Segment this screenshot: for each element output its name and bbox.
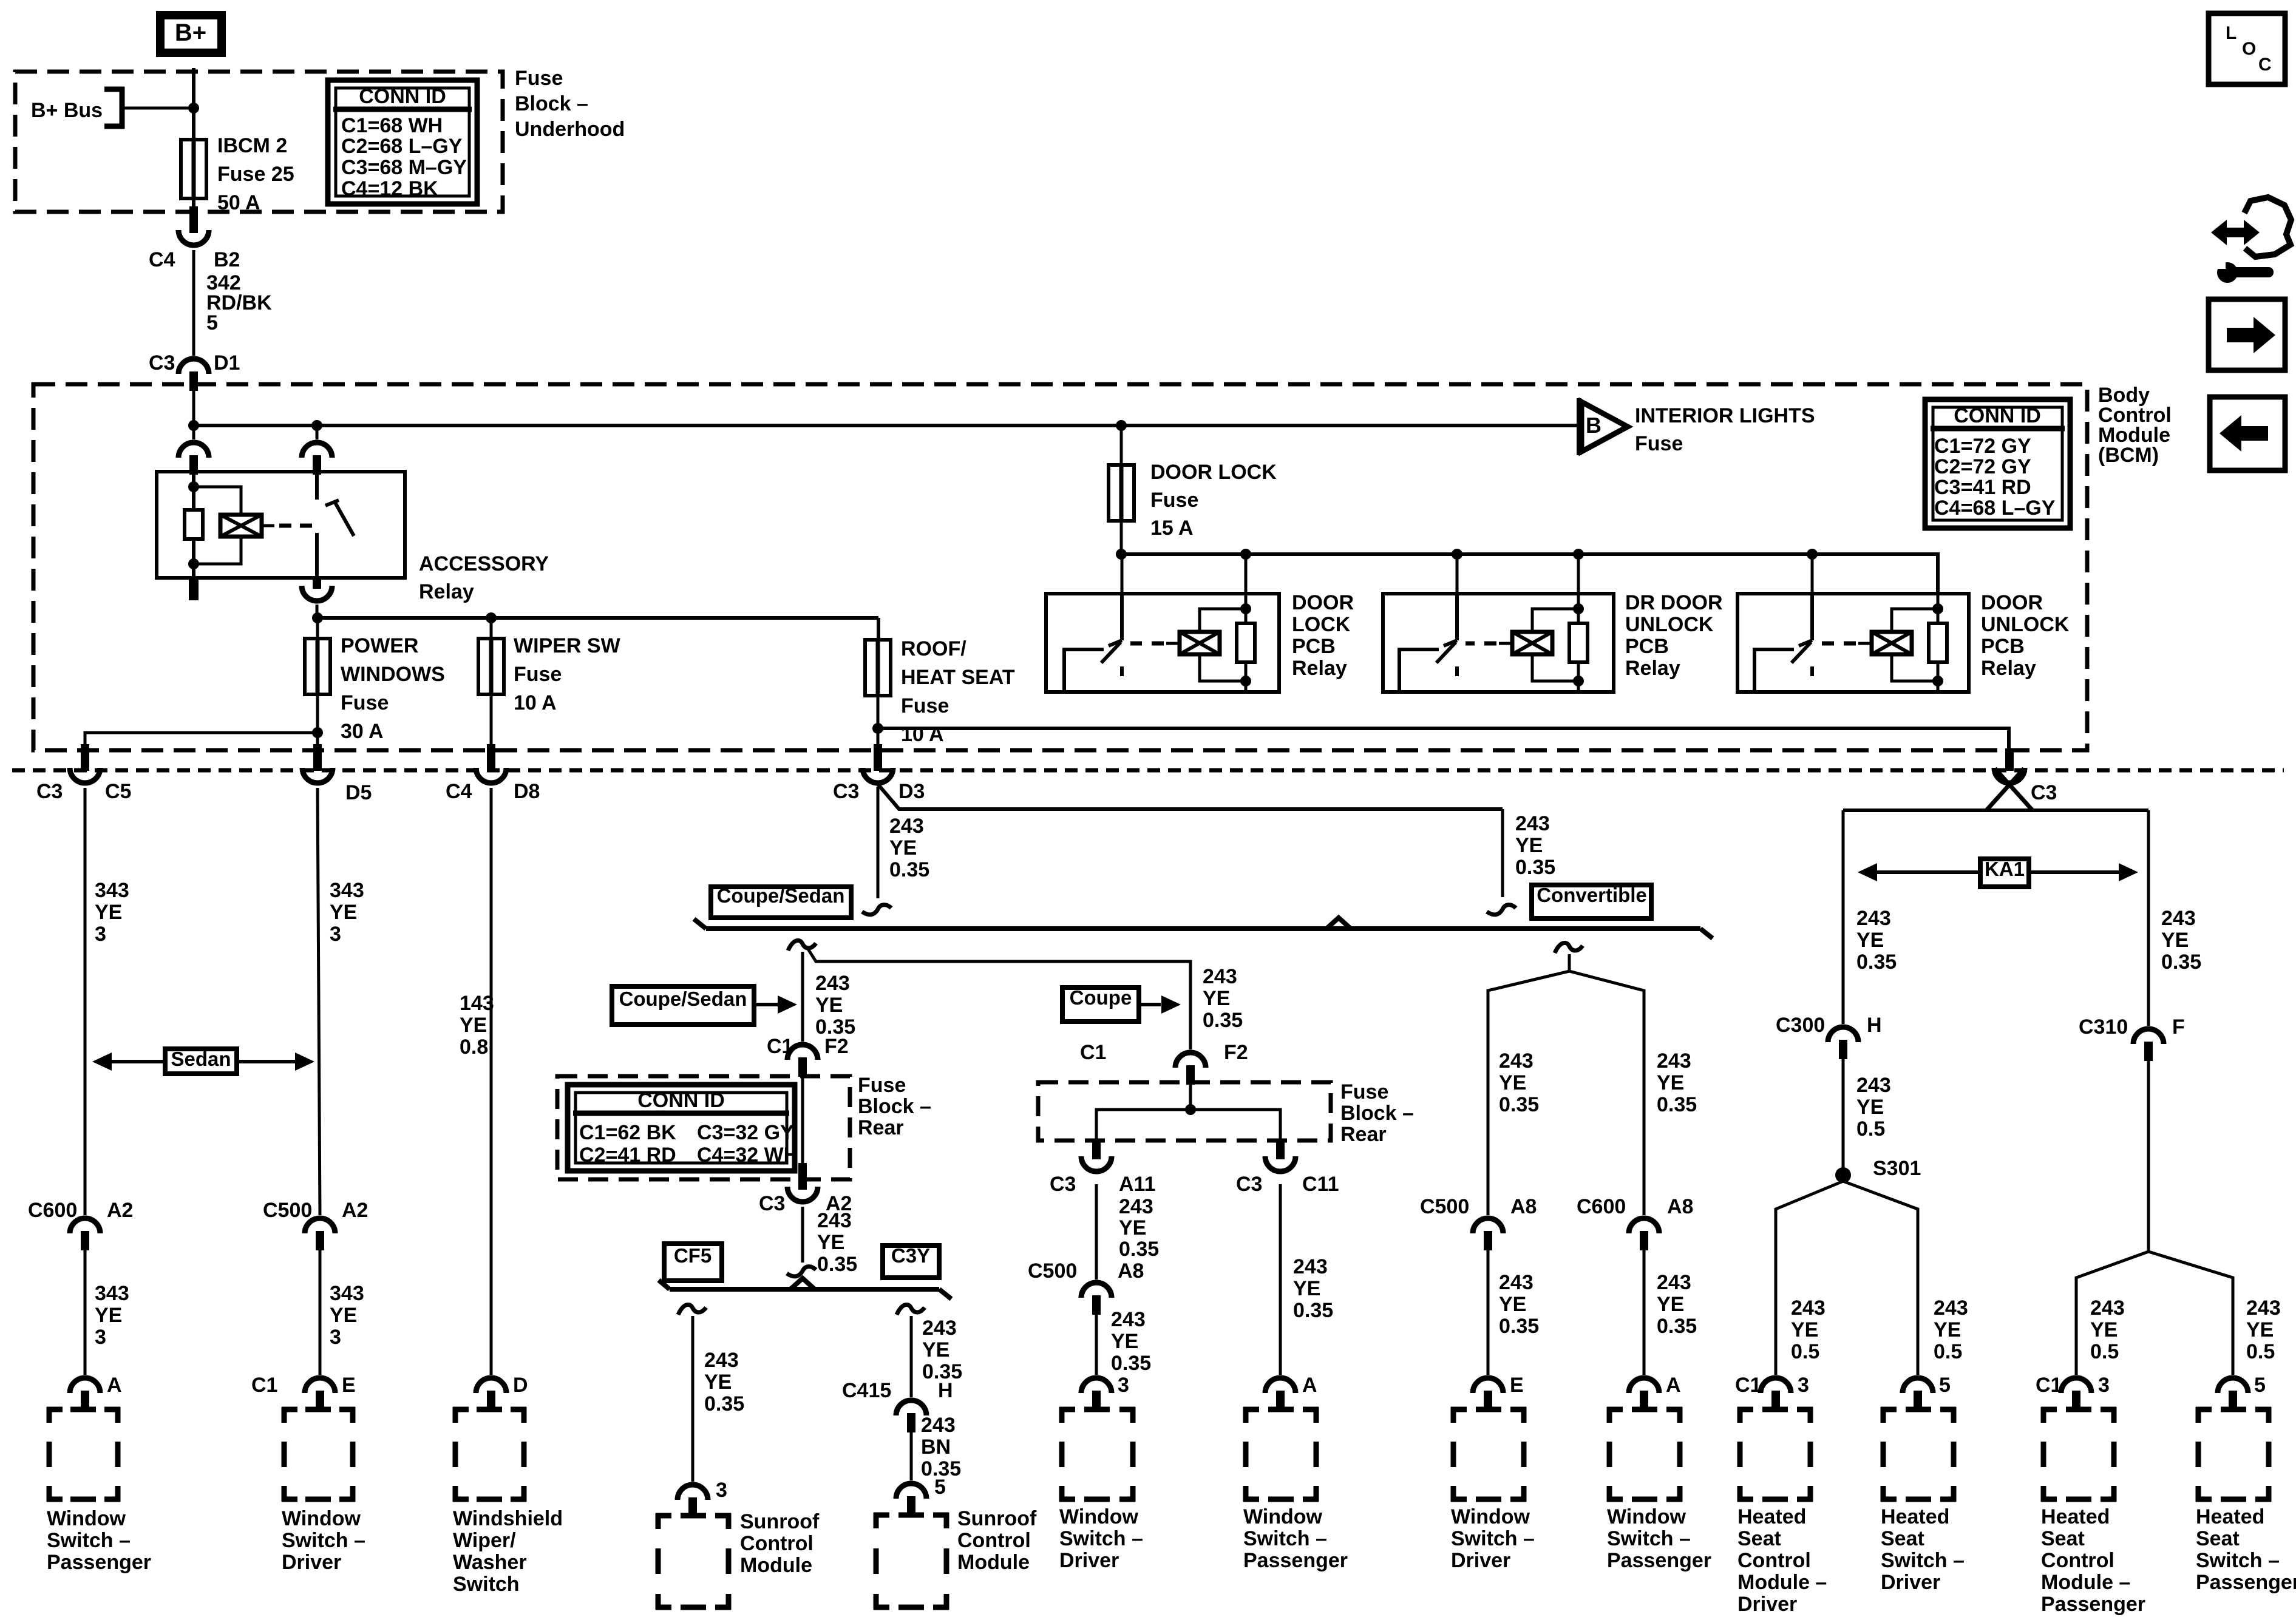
svg-text:0.5: 0.5: [2246, 1340, 2275, 1363]
svg-text:Passenger: Passenger: [2041, 1593, 2145, 1616]
wire C3Y branch 243 YE 0.35: [910, 1316, 913, 1397]
svg-text:143: 143: [460, 992, 494, 1015]
svg-text:3: 3: [95, 1326, 106, 1349]
svg-text:DR DOOR: DR DOOR: [1625, 591, 1723, 614]
svg-text:Seat: Seat: [1881, 1527, 1924, 1550]
CF5 option box: [664, 1244, 722, 1281]
svg-text:Block –: Block –: [515, 92, 588, 115]
svg-text:YE: YE: [1499, 1071, 1526, 1094]
relay DOOR UNLOCK PCB box: [1737, 594, 1969, 692]
connector C500/A8 convertible: [1473, 1218, 1503, 1233]
connector C1/F2 right: [1175, 1053, 1206, 1068]
relay DOOR LOCK PCB coil feed wire: [1245, 554, 1248, 610]
svg-text:C1=62 BK: C1=62 BK: [579, 1121, 676, 1144]
Heated Seat Control Module - Driver box: [1737, 1407, 1753, 1412]
svg-text:A: A: [1302, 1374, 1317, 1397]
svg-text:C3=68 M–GY: C3=68 M–GY: [341, 156, 467, 179]
convertible Y split: [1488, 954, 1569, 1215]
svg-text:C3: C3: [1236, 1173, 1262, 1196]
svg-text:Module –: Module –: [1737, 1571, 1827, 1594]
svg-text:0.35: 0.35: [1657, 1315, 1697, 1338]
hook top of C3Y branch: [897, 1304, 925, 1315]
svg-text:243: 243: [1791, 1297, 1826, 1320]
branch C3/D3 to convertible drop: [878, 784, 1503, 809]
svg-text:A8: A8: [1667, 1195, 1693, 1218]
svg-text:0.35: 0.35: [1111, 1352, 1151, 1375]
connector C3/A2: [798, 1163, 807, 1190]
svg-text:C300: C300: [1776, 1014, 1825, 1037]
junction dot bus left: [188, 420, 199, 431]
svg-text:C3: C3: [149, 351, 175, 375]
service tool hand icon: [2211, 220, 2260, 245]
svg-text:0.35: 0.35: [889, 858, 929, 881]
relay DR DOOR UNLOCK PCB coil feed wire: [1577, 554, 1580, 610]
svg-text:0.35: 0.35: [1499, 1315, 1539, 1338]
connector C4/D8: [487, 744, 495, 771]
svg-text:243: 243: [921, 1414, 956, 1437]
svg-text:Fuse: Fuse: [858, 1074, 906, 1097]
svg-text:243: 243: [1856, 1074, 1891, 1097]
svg-text:IBCM 2: IBCM 2: [217, 134, 287, 157]
svg-text:YE: YE: [2246, 1318, 2274, 1341]
Sunroof Control Module box 2: [874, 1513, 889, 1518]
svg-text:Window: Window: [47, 1507, 126, 1530]
junction dot B+ bus: [188, 103, 199, 114]
connector 5 heated seat switch driver: [1903, 1378, 1933, 1393]
main B+ bus inside BCM: [194, 424, 1579, 427]
svg-text:C4=32 WH: C4=32 WH: [697, 1144, 798, 1167]
svg-text:H: H: [938, 1379, 953, 1402]
accessory relay coil ground stub: [189, 578, 199, 600]
svg-text:243: 243: [2090, 1297, 2125, 1320]
back arrow box: [2210, 397, 2285, 470]
svg-text:YE: YE: [2161, 929, 2189, 952]
svg-text:0.35: 0.35: [2161, 951, 2201, 974]
svg-text:C1: C1: [251, 1374, 277, 1397]
svg-text:YE: YE: [1515, 834, 1543, 857]
BCM CONN ID table: [1925, 399, 2070, 528]
svg-text:C3=32 GY: C3=32 GY: [697, 1121, 794, 1144]
svg-text:C2=68 L–GY: C2=68 L–GY: [341, 135, 463, 158]
svg-text:243: 243: [1499, 1049, 1533, 1073]
svg-text:0.5: 0.5: [2090, 1340, 2119, 1363]
wire to A window switch passenger: [1643, 1250, 1646, 1375]
svg-text:343: 343: [330, 879, 364, 902]
svg-text:H: H: [1867, 1014, 1882, 1037]
svg-text:YE: YE: [1791, 1318, 1818, 1341]
svg-text:C5: C5: [105, 780, 131, 803]
svg-text:DOOR: DOOR: [1292, 591, 1354, 614]
svg-text:CF5: CF5: [674, 1244, 712, 1267]
connector accessory relay switch feed: [316, 425, 319, 439]
svg-text:Windshield: Windshield: [453, 1507, 563, 1530]
Heated Seat Switch - Passenger box: [2196, 1407, 2212, 1412]
svg-text:5: 5: [934, 1476, 946, 1499]
connector C4/B2: [189, 206, 198, 233]
svg-text:Sunroof: Sunroof: [740, 1510, 820, 1533]
accessory relay resistor: [185, 510, 203, 539]
svg-text:Convertible: Convertible: [1537, 884, 1647, 906]
svg-text:C2=72 GY: C2=72 GY: [1934, 455, 2031, 478]
svg-text:Fuse: Fuse: [1150, 489, 1198, 512]
svg-text:YE: YE: [2090, 1318, 2118, 1341]
svg-text:C4=12 BK: C4=12 BK: [341, 177, 438, 200]
svg-text:Sedan: Sedan: [171, 1048, 231, 1070]
svg-text:343: 343: [330, 1282, 364, 1305]
svg-text:C600: C600: [28, 1199, 77, 1222]
svg-text:0.35: 0.35: [1119, 1238, 1159, 1261]
Windshield Wiper/Washer Switch box: [453, 1407, 469, 1412]
svg-text:Fuse: Fuse: [515, 67, 563, 90]
svg-text:Seat: Seat: [1737, 1527, 1781, 1550]
relay DR DOOR UNLOCK PCB box: [1383, 594, 1614, 692]
Coupe/Sedan option box top: [711, 887, 851, 918]
Fuse Block - Rear right dashed box: [1038, 1082, 1331, 1141]
svg-text:Coupe/Sedan: Coupe/Sedan: [717, 884, 845, 907]
svg-text:PCB: PCB: [1981, 635, 2025, 658]
connector C1/3 heated seat control module passenger: [2061, 1378, 2091, 1393]
connector 3 sunroof control module: [678, 1485, 708, 1500]
svg-text:C3: C3: [833, 780, 859, 803]
svg-text:Window: Window: [1243, 1505, 1323, 1528]
svg-text:3: 3: [1798, 1374, 1809, 1397]
svg-text:50 A: 50 A: [217, 191, 260, 214]
hook top of coupe/sedan branch: [788, 940, 816, 951]
relay feed bus: [1120, 521, 1123, 555]
Coupe option box with arrow: [1062, 988, 1139, 1022]
wire CF5 branch 243 YE 0.35: [691, 1316, 695, 1482]
KA1 connector span arrows: [1877, 870, 1980, 874]
svg-text:UNLOCK: UNLOCK: [1625, 613, 1714, 636]
svg-text:Seat: Seat: [2041, 1527, 2085, 1550]
svg-text:Module –: Module –: [2041, 1571, 2130, 1594]
Heated Seat Switch - Driver box: [1881, 1407, 1897, 1412]
branch to power windows connectors: [316, 694, 319, 745]
accessory relay switch: [315, 475, 319, 500]
split bus to heated seat branches: [1843, 808, 2148, 812]
accessory relay coil winding: [220, 515, 262, 537]
svg-text:C1: C1: [2036, 1374, 2062, 1397]
relay DR DOOR UNLOCK PCB coil-switch dashed link: [1499, 642, 1512, 645]
C3Y option box: [883, 1246, 939, 1278]
svg-text:5: 5: [1939, 1374, 1951, 1397]
svg-text:Window: Window: [1607, 1505, 1686, 1528]
Coupe/Sedan option box with arrow: [612, 986, 754, 1025]
wire A11 243 YE 0.35: [1095, 1184, 1098, 1280]
svg-text:YE: YE: [330, 1304, 357, 1327]
wire 243 YE 0.5 to S301: [1842, 1059, 1845, 1176]
connector A window switch passenger mid: [1265, 1378, 1296, 1393]
svg-text:243: 243: [1657, 1049, 1691, 1073]
svg-text:3: 3: [330, 1326, 341, 1349]
svg-text:Module: Module: [957, 1551, 1030, 1574]
wire bracket to junction: [123, 107, 194, 110]
Fuse Block - Underhood dashed box: [15, 72, 503, 212]
svg-text:PCB: PCB: [1625, 635, 1669, 658]
svg-text:CONN ID: CONN ID: [1954, 404, 2041, 427]
Window Switch - Driver box convertible: [1451, 1407, 1467, 1412]
accessory relay coil branch: [192, 475, 195, 511]
svg-text:0.8: 0.8: [460, 1036, 488, 1059]
svg-text:243: 243: [922, 1317, 957, 1340]
svg-text:E: E: [342, 1374, 356, 1397]
connector A window switch passenger: [70, 1378, 100, 1393]
svg-text:Block –: Block –: [858, 1095, 931, 1118]
wire fuse to connector C4/B2: [192, 198, 195, 208]
svg-text:30 A: 30 A: [341, 720, 384, 743]
svg-text:Control: Control: [740, 1532, 813, 1555]
connector C600/A8 convertible: [1629, 1218, 1659, 1233]
X split below BCM C3 connector: [1986, 768, 2024, 810]
connector C3 BCM right: [2005, 748, 2014, 771]
svg-text:YE: YE: [922, 1338, 949, 1361]
svg-text:C2=41 RD: C2=41 RD: [579, 1144, 676, 1167]
S301 Y split: [1776, 1181, 1843, 1375]
svg-text:D8: D8: [514, 780, 540, 803]
relay DOOR UNLOCK PCB switch: [1810, 595, 1814, 640]
wire B+ down to bus junction: [192, 68, 195, 141]
svg-text:C: C: [2258, 55, 2272, 75]
C310 Y split: [2076, 1252, 2148, 1375]
svg-text:Sunroof: Sunroof: [957, 1507, 1037, 1530]
svg-text:0.35: 0.35: [704, 1392, 744, 1415]
wire through left fuse block rear: [801, 1077, 804, 1163]
svg-text:YE: YE: [1111, 1330, 1138, 1353]
svg-text:Control: Control: [957, 1529, 1031, 1552]
svg-text:YE: YE: [1293, 1277, 1320, 1300]
svg-text:Window: Window: [282, 1507, 361, 1530]
connector D5: [313, 744, 322, 771]
branch wire to coupe connector: [807, 948, 1190, 1049]
svg-text:Control: Control: [2041, 1549, 2114, 1572]
svg-text:243: 243: [1111, 1308, 1146, 1331]
svg-text:DOOR: DOOR: [1981, 591, 2043, 614]
svg-text:Passenger: Passenger: [1243, 1549, 1348, 1572]
svg-text:Heated: Heated: [2196, 1505, 2264, 1528]
svg-text:F2: F2: [1224, 1041, 1248, 1064]
wire 343 YE 3 to window switch passenger: [84, 1250, 87, 1375]
svg-text:243: 243: [1203, 965, 1237, 988]
svg-text:Fuse: Fuse: [514, 663, 562, 686]
svg-text:YE: YE: [1499, 1293, 1526, 1316]
svg-text:O: O: [2242, 39, 2256, 59]
option brace line lower: [670, 1287, 939, 1292]
svg-text:Switch –: Switch –: [1607, 1527, 1691, 1550]
svg-text:C4=68 L–GY: C4=68 L–GY: [1934, 497, 2056, 520]
svg-text:0.35: 0.35: [1499, 1093, 1539, 1116]
svg-text:Heated: Heated: [2041, 1505, 2110, 1528]
svg-text:YE: YE: [1119, 1216, 1146, 1239]
svg-text:Seat: Seat: [2196, 1527, 2240, 1550]
Convertible option box: [1532, 885, 1651, 918]
svg-text:PCB: PCB: [1292, 635, 1336, 658]
svg-text:Heated: Heated: [1881, 1505, 1949, 1528]
wire C310 down to Y split: [2147, 1061, 2150, 1252]
relay DR DOOR UNLOCK PCB coil winding: [1532, 609, 1578, 633]
wire to E window switch driver: [1487, 1250, 1490, 1375]
svg-text:243: 243: [889, 815, 924, 838]
relay DR DOOR UNLOCK PCB switch feed wire: [1456, 554, 1459, 595]
svg-text:C500: C500: [1028, 1259, 1077, 1283]
junction dot accessory switch feed: [311, 420, 322, 431]
svg-text:B2: B2: [214, 248, 240, 271]
hook top of convertible branch: [1555, 943, 1583, 953]
fuse WIPER SW 10A: [490, 618, 493, 640]
svg-text:Control: Control: [1737, 1549, 1811, 1572]
svg-text:WIPER SW: WIPER SW: [514, 634, 621, 657]
svg-text:243: 243: [704, 1349, 739, 1372]
svg-text:C4: C4: [446, 780, 472, 803]
svg-text:Fuse: Fuse: [1340, 1080, 1388, 1103]
Window Switch - Passenger box mid: [1243, 1407, 1259, 1412]
svg-text:DOOR LOCK: DOOR LOCK: [1150, 461, 1277, 484]
svg-text:C310: C310: [2079, 1015, 2128, 1039]
svg-text:0.35: 0.35: [1293, 1299, 1333, 1322]
wire 343 YE 3 to window switch driver: [319, 1250, 322, 1375]
connector C3/A11: [1092, 1141, 1101, 1159]
connector C310/F: [2133, 1029, 2164, 1044]
svg-text:YE: YE: [817, 1231, 844, 1254]
relay DOOR UNLOCK PCB coil winding: [1892, 609, 1938, 633]
ACCESSORY relay box: [157, 472, 405, 578]
svg-text:Rear: Rear: [858, 1116, 904, 1139]
svg-text:10 A: 10 A: [901, 723, 944, 746]
svg-text:A8: A8: [1118, 1259, 1144, 1283]
wire 243 YE 0.35 to window switch driver 3: [1095, 1315, 1098, 1375]
svg-text:CONN ID: CONN ID: [637, 1089, 725, 1112]
page split dotted line: [12, 768, 2284, 773]
wire into BCM: [192, 390, 195, 427]
wire A2 down 243 YE 0.35: [801, 1207, 804, 1263]
interior lights fuse triangle B: [1577, 398, 1581, 455]
svg-text:3: 3: [330, 923, 341, 946]
connector C1/F2 left: [787, 1045, 818, 1060]
svg-text:F2: F2: [824, 1035, 849, 1058]
relay DOOR LOCK PCB coil-switch dashed link: [1166, 642, 1180, 645]
connector 3 window switch driver: [1081, 1378, 1112, 1393]
relay DOOR LOCK PCB coil winding: [1200, 609, 1246, 633]
svg-text:WINDOWS: WINDOWS: [341, 663, 445, 686]
svg-text:Fuse: Fuse: [1635, 432, 1683, 455]
svg-text:C3=41 RD: C3=41 RD: [1934, 476, 2031, 499]
svg-text:YE: YE: [889, 836, 917, 859]
svg-text:C11: C11: [1302, 1173, 1339, 1196]
connector C300/H: [1828, 1027, 1858, 1042]
svg-text:C3: C3: [759, 1192, 785, 1215]
svg-text:Relay: Relay: [1292, 657, 1347, 680]
svg-text:C3Y: C3Y: [891, 1244, 930, 1267]
wire 343 YE 3 driver column: [318, 788, 320, 1215]
Sedan option box with arrows: [165, 1049, 237, 1074]
svg-text:Fuse: Fuse: [341, 691, 389, 714]
svg-text:CONN ID: CONN ID: [359, 85, 446, 108]
svg-text:0.5: 0.5: [1856, 1117, 1885, 1141]
relay DOOR LOCK PCB resistor: [1240, 603, 1251, 614]
svg-text:Driver: Driver: [282, 1551, 341, 1574]
B+ power terminal: [160, 15, 222, 53]
svg-text:Passenger: Passenger: [1607, 1549, 1711, 1572]
svg-text:Switch –: Switch –: [2196, 1549, 2280, 1572]
svg-text:243: 243: [1934, 1297, 1968, 1320]
Sunroof Control Module box 1: [656, 1513, 671, 1519]
LOC reference box: [2209, 13, 2285, 84]
svg-text:YE: YE: [330, 901, 357, 924]
svg-text:ACCESSORY: ACCESSORY: [419, 552, 549, 575]
Window Switch - Driver box: [282, 1407, 297, 1412]
svg-text:YE: YE: [1856, 1096, 1884, 1119]
right branch wire down to C310: [2147, 810, 2150, 1026]
svg-text:0.35: 0.35: [1856, 951, 1897, 974]
svg-text:343: 343: [95, 1282, 129, 1305]
svg-text:Washer: Washer: [453, 1551, 527, 1574]
svg-text:343: 343: [95, 879, 129, 902]
splice S301: [1835, 1167, 1851, 1183]
svg-text:C1=72 GY: C1=72 GY: [1934, 435, 2031, 458]
svg-text:E: E: [1510, 1374, 1524, 1397]
left branch wire down to C300: [1842, 810, 1845, 1024]
Window Switch - Passenger box convertible: [1607, 1407, 1623, 1412]
wire 243 BN 0.35: [910, 1432, 913, 1480]
connector C3/C11: [1276, 1141, 1285, 1159]
svg-text:YE: YE: [95, 901, 122, 924]
svg-text:Wiper/: Wiper/: [453, 1529, 516, 1552]
svg-text:YE: YE: [1203, 987, 1230, 1010]
svg-text:Driver: Driver: [1059, 1549, 1119, 1572]
svg-text:C1: C1: [1735, 1374, 1761, 1397]
svg-text:Relay: Relay: [1625, 657, 1680, 680]
svg-text:ROOF/: ROOF/: [901, 637, 966, 660]
connector C600/A2: [70, 1218, 100, 1233]
svg-text:Switch –: Switch –: [1451, 1527, 1535, 1550]
coupe/sedan drop end hook: [862, 905, 891, 915]
relay DOOR UNLOCK PCB switch feed wire: [1811, 554, 1814, 595]
fuse DOOR LOCK 15A: [1120, 425, 1123, 466]
svg-text:B+: B+: [175, 19, 206, 46]
svg-text:YE: YE: [95, 1304, 122, 1327]
svg-text:Coupe/Sedan: Coupe/Sedan: [619, 988, 747, 1010]
svg-text:F: F: [2172, 1015, 2185, 1039]
relay DOOR LOCK PCB box: [1046, 594, 1279, 692]
svg-text:0.5: 0.5: [1934, 1340, 1962, 1363]
svg-text:15 A: 15 A: [1150, 517, 1194, 540]
svg-text:C1: C1: [767, 1035, 793, 1058]
svg-text:Module: Module: [740, 1554, 812, 1577]
B+ Bus tap bracket: [120, 87, 125, 129]
svg-text:YE: YE: [460, 1014, 487, 1037]
connector 5 sunroof control module: [896, 1483, 926, 1499]
svg-text:YE: YE: [815, 994, 843, 1017]
svg-text:Coupe: Coupe: [1070, 986, 1132, 1009]
svg-text:0.35: 0.35: [1515, 856, 1555, 879]
wiper switch branch: [490, 694, 493, 745]
svg-text:3: 3: [95, 923, 106, 946]
svg-text:243: 243: [1499, 1271, 1533, 1294]
Heated Seat Control Module - Passenger box: [2041, 1407, 2057, 1412]
wire into right fuse block rear: [1189, 1085, 1192, 1111]
wire 343 YE 3 passenger column: [84, 788, 87, 1215]
connector A: [1629, 1378, 1659, 1393]
relay DOOR UNLOCK PCB resistor: [1932, 603, 1943, 614]
svg-text:243: 243: [2161, 907, 2196, 930]
svg-text:243: 243: [815, 972, 850, 995]
svg-text:Switch: Switch: [453, 1573, 520, 1596]
svg-text:S301: S301: [1873, 1157, 1921, 1180]
svg-text:0.35: 0.35: [1657, 1093, 1697, 1116]
connector C3/D3: [877, 728, 880, 745]
svg-text:C3: C3: [1050, 1173, 1076, 1196]
svg-text:Block –: Block –: [1340, 1102, 1414, 1125]
svg-text:D: D: [513, 1374, 528, 1397]
